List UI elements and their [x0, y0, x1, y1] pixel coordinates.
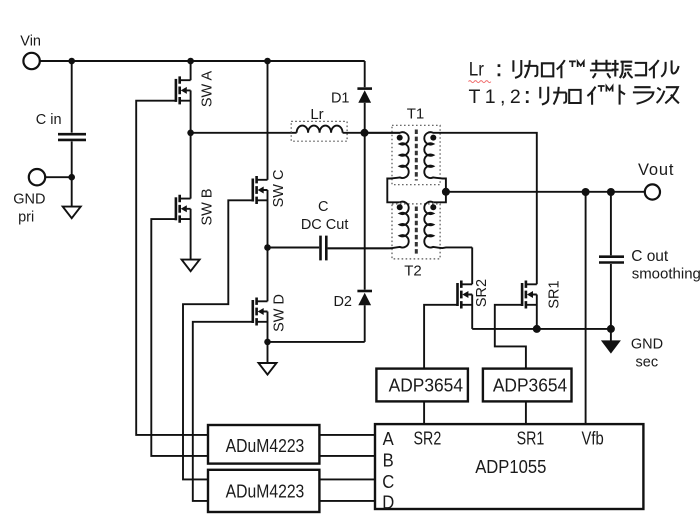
node junction GND/Cin	[68, 174, 75, 181]
svg-text:SR1: SR1	[547, 280, 563, 308]
wire center tap to Vout	[446, 191, 645, 193]
node junction bridge C leg	[264, 244, 271, 251]
glyph ka 1	[524, 60, 537, 78]
T2 secondary dot	[430, 204, 436, 210]
wire SW C source	[267, 190, 269, 248]
transformer T2 primary winding	[328, 202, 409, 249]
inductor Lr	[297, 126, 343, 133]
wire SR2 drain from T2	[471, 247, 473, 284]
node junction bridge A leg	[187, 130, 194, 137]
node junction Vin/Cin	[68, 58, 75, 65]
wire SW C gate to ADuM	[183, 200, 253, 479]
ground pri	[63, 207, 81, 219]
wire Vfb	[585, 192, 587, 424]
glyph ko 1	[635, 63, 647, 75]
transistor SW D	[253, 298, 268, 326]
svg-text:T2: T2	[404, 263, 422, 280]
IC ADP3654 right	[483, 369, 572, 402]
glyph shin 1	[612, 60, 633, 78]
transformer T1 secondary winding	[424, 132, 447, 202]
glyph ka 2	[553, 87, 566, 105]
note line 2	[469, 85, 679, 109]
wire SW B drain	[190, 133, 192, 199]
wire top rail	[40, 60, 365, 62]
glyph ru 1	[661, 60, 678, 76]
glyph ra 2	[633, 87, 654, 104]
diode D2	[357, 291, 372, 342]
svg-text:GND: GND	[631, 336, 663, 352]
IC ADP1055	[375, 424, 643, 509]
wire SW B source	[190, 209, 192, 260]
wire A	[319, 434, 375, 436]
transistor SR2	[458, 281, 473, 309]
glyph kyou 1	[590, 60, 614, 78]
IC ADuM4223 lower	[208, 470, 319, 512]
node junction SW A drain	[187, 58, 194, 65]
wire bridge C output to C DC cut	[268, 247, 320, 249]
IC ADP3654 left	[376, 369, 468, 402]
transformer T1 primary winding	[365, 132, 409, 202]
svg-text:D1: D1	[331, 91, 350, 107]
capacitor C out smoothing	[599, 257, 624, 263]
glyph ro 1	[542, 63, 553, 76]
wire secondary ground rail	[472, 328, 611, 330]
svg-text:SW A: SW A	[200, 71, 216, 108]
wire SW A drain	[190, 61, 192, 80]
svg-text:smoothing: smoothing	[632, 265, 700, 282]
transformer T1 dotted box	[392, 125, 440, 184]
red squiggle under Lr	[469, 81, 491, 83]
svg-text:SR2: SR2	[474, 279, 490, 307]
wire C in branch upper	[71, 61, 73, 133]
wire SW D gate to ADuM	[193, 322, 253, 501]
wire C in branch lower	[71, 141, 73, 206]
transformer T2 secondary winding	[424, 202, 472, 248]
svg-text:SW D: SW D	[272, 294, 288, 332]
svg-text:Vfb: Vfb	[581, 428, 603, 449]
glyph i 1	[557, 60, 565, 78]
svg-text:B: B	[383, 450, 394, 471]
superscript TM 2	[598, 86, 613, 92]
svg-text:D: D	[382, 491, 394, 512]
svg-text:GND: GND	[13, 191, 45, 207]
ground SW B	[182, 260, 200, 272]
svg-text:ADuM4223: ADuM4223	[226, 480, 305, 502]
ground SW D	[259, 363, 277, 375]
glyph ri 2	[540, 87, 548, 105]
wire D	[319, 500, 375, 502]
wire SR1 source	[536, 295, 538, 329]
svg-text:T1: T1	[407, 106, 425, 123]
transformer T2 dotted box	[392, 204, 440, 259]
svg-text:ADP3654: ADP3654	[389, 375, 463, 396]
capacitor C in	[58, 134, 86, 140]
svg-text:sec: sec	[636, 354, 659, 370]
svg-text:C in: C in	[36, 112, 62, 128]
node junction C out top	[607, 188, 615, 196]
svg-text:SW B: SW B	[200, 188, 216, 225]
wire diode string D1-D2	[364, 133, 366, 290]
wire D2 anode to SW D source	[268, 341, 365, 343]
svg-text:Lr: Lr	[469, 58, 484, 79]
wire SW B gate to ADuM	[151, 219, 208, 456]
svg-text:C: C	[318, 199, 328, 215]
svg-text:ADP1055: ADP1055	[475, 456, 546, 477]
svg-text:ADP3654: ADP3654	[493, 375, 567, 396]
node junction C out / GND sec	[607, 325, 615, 333]
wire SW D source	[267, 312, 269, 364]
wire SR1 gate to ADP3654	[495, 305, 526, 369]
wire Lr to node	[343, 132, 400, 134]
colon 1	[498, 66, 501, 75]
transistor SW C	[253, 176, 268, 204]
transistor SR1	[522, 281, 537, 309]
wire T1 secondary to SR1 drain	[447, 133, 537, 284]
wire GND stub	[45, 176, 71, 178]
glyph su 2	[665, 87, 679, 103]
svg-text:pri: pri	[18, 209, 34, 225]
svg-text:DC Cut: DC Cut	[301, 217, 349, 233]
transistor SW B	[176, 195, 191, 223]
capacitor C DC Cut	[321, 236, 327, 261]
wire B	[319, 455, 375, 457]
svg-text:C out: C out	[631, 248, 669, 265]
wire SW A source	[190, 90, 192, 132]
glyph i 1b	[649, 60, 659, 78]
glyph n 2	[657, 88, 665, 103]
wire SW D drain	[267, 248, 269, 302]
glyph ri 1	[513, 60, 521, 78]
svg-text:SR2: SR2	[414, 429, 442, 449]
svg-text:A: A	[383, 428, 394, 449]
transformer T1 core	[415, 130, 418, 181]
glyph i 2	[587, 87, 595, 105]
wire C	[319, 478, 375, 480]
node junction SW C drain	[264, 58, 271, 65]
ground GND sec (filled)	[601, 340, 621, 353]
glyph to 2	[620, 85, 625, 105]
svg-text:Lr: Lr	[310, 106, 323, 123]
node junction SW D source / D2	[264, 339, 271, 346]
svg-text:Vin: Vin	[20, 33, 41, 49]
wire C out upper	[610, 192, 612, 255]
inductor Lr dotted box	[291, 121, 347, 141]
terminal Vin	[23, 53, 39, 69]
transistor SW A	[176, 76, 191, 104]
svg-text:Vout: Vout	[638, 161, 674, 179]
node junction SR1 source	[533, 325, 541, 333]
svg-text:SR1: SR1	[517, 429, 545, 449]
wire C out lower	[610, 264, 612, 329]
wire ADP3654 left to ADP1055 SR2	[423, 401, 425, 424]
wire SW C drain	[267, 61, 269, 180]
svg-text:T1,2: T1,2	[469, 86, 526, 108]
T1 primary dot	[397, 135, 403, 141]
svg-text:C: C	[382, 471, 394, 492]
terminal Vout	[645, 184, 660, 199]
wire C DC cut to T2 primary	[328, 247, 391, 249]
wire ADP3654 right to ADP1055 SR1	[525, 401, 527, 424]
svg-text:ADuM4223: ADuM4223	[226, 435, 305, 457]
superscript TM 1	[569, 61, 584, 67]
diode D1	[357, 61, 372, 133]
wire SR2 source	[471, 295, 473, 329]
wire GND sec stub	[610, 329, 612, 341]
node junction center tap	[442, 188, 450, 196]
T1 secondary dot	[430, 135, 436, 141]
wire bridge A output	[191, 132, 297, 134]
T2 primary dot	[397, 204, 403, 210]
node junction Lr/D1/T1	[361, 129, 369, 137]
node junction Vfb tap	[582, 188, 590, 196]
wire SW A gate to ADuM	[136, 101, 208, 435]
terminal GND pri	[29, 169, 45, 185]
glyph ro 2	[569, 90, 580, 103]
svg-text:D2: D2	[333, 294, 352, 310]
colon 2	[526, 92, 529, 101]
IC ADuM4223 upper	[208, 425, 319, 464]
note line 1: Lr	[469, 58, 679, 82]
svg-text:SW C: SW C	[271, 170, 287, 208]
wire SR2 gate to ADP3654	[424, 305, 457, 369]
transformer T2 core	[415, 207, 418, 256]
